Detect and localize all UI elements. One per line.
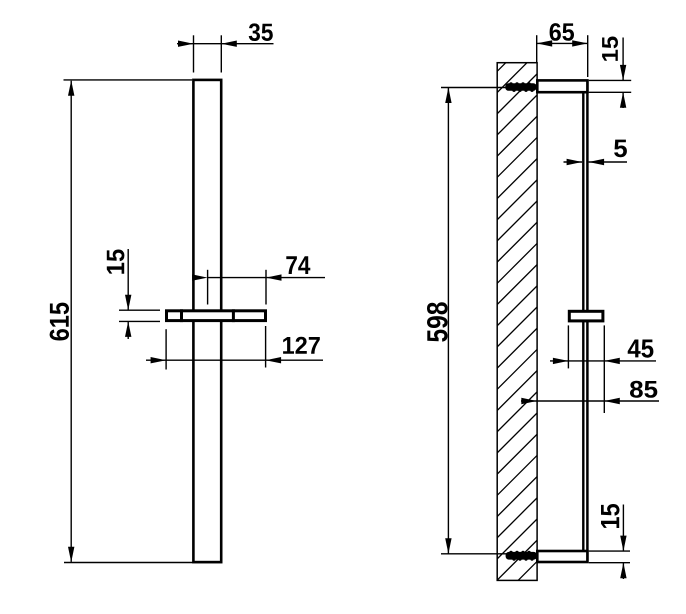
slider front divider left bbox=[180, 309, 183, 322]
dim 15 bottom right extension lines bbox=[589, 550, 630, 552]
dim 615 arrow down bbox=[68, 547, 74, 563]
dim 15 bottom right label bbox=[601, 504, 620, 528]
dim 615 extension line top bbox=[64, 79, 193, 81]
dim 35 line bbox=[177, 43, 274, 45]
dim 15 left: line, arrows, extensions bbox=[127, 249, 129, 310]
dim 598 label bbox=[427, 302, 448, 342]
dim 45 label bbox=[628, 340, 654, 358]
dim 15 bottom right: line and arrows bbox=[622, 505, 624, 551]
bottom screw bbox=[506, 551, 537, 561]
slider front divider right bbox=[232, 309, 235, 322]
dim 45 arrows bbox=[553, 358, 569, 364]
dim 74 label bbox=[286, 256, 310, 274]
dim 74 arrows bbox=[192, 274, 208, 280]
dim 127 label bbox=[283, 337, 320, 354]
dim 598 extension top bbox=[441, 87, 506, 89]
dim 15 top right extension lines bbox=[589, 79, 632, 81]
slider side view bbox=[569, 311, 603, 321]
dim 598 arrows bbox=[445, 88, 451, 104]
dim 127 extension lines bbox=[165, 329, 167, 369]
bottom bracket bbox=[537, 551, 587, 562]
rail front view bbox=[193, 80, 221, 562]
dim 65 label bbox=[550, 23, 574, 41]
top bracket bbox=[537, 80, 587, 92]
dim 5 label bbox=[614, 140, 627, 158]
dim 598 extension bottom bbox=[441, 553, 507, 555]
dim 615 label bbox=[50, 303, 69, 341]
dim 45 extension lines bbox=[567, 325, 569, 368]
dim 127 arrows bbox=[151, 357, 167, 363]
dim 598 line bbox=[447, 88, 449, 554]
slider front view bbox=[167, 311, 266, 321]
dim 85 arrows bbox=[521, 398, 537, 404]
dim 35 label bbox=[249, 23, 273, 41]
dim 15 left label bbox=[107, 250, 125, 274]
top screw bbox=[505, 82, 536, 92]
dim 615 extension line bottom bbox=[64, 562, 223, 564]
dim 5 line right segment bbox=[589, 161, 627, 163]
dim 65 arrows bbox=[537, 40, 553, 46]
dim 74 extension lines bbox=[207, 270, 209, 305]
dim 85 label bbox=[630, 381, 657, 398]
dim 15 top right: line and arrows bbox=[622, 38, 624, 81]
dim 65 line bbox=[537, 42, 588, 44]
dim 35 extension lines bbox=[193, 35, 195, 72]
dim 85 line bbox=[521, 400, 659, 402]
dim 45 line bbox=[550, 360, 656, 362]
dim 127 line bbox=[146, 359, 323, 361]
dim 65 extension lines bbox=[536, 35, 538, 62]
dim 35 arrows bbox=[178, 41, 194, 47]
rail side view outer line bbox=[586, 81, 589, 562]
rail side view inner line bbox=[582, 82, 584, 561]
dim 615 arrow up bbox=[68, 80, 74, 96]
dim 74 line bbox=[208, 277, 325, 279]
wall section bbox=[497, 63, 537, 581]
dim 615 line bbox=[70, 81, 72, 562]
dim 5 line left segment bbox=[564, 161, 583, 163]
dim 15 top right label bbox=[602, 37, 618, 61]
